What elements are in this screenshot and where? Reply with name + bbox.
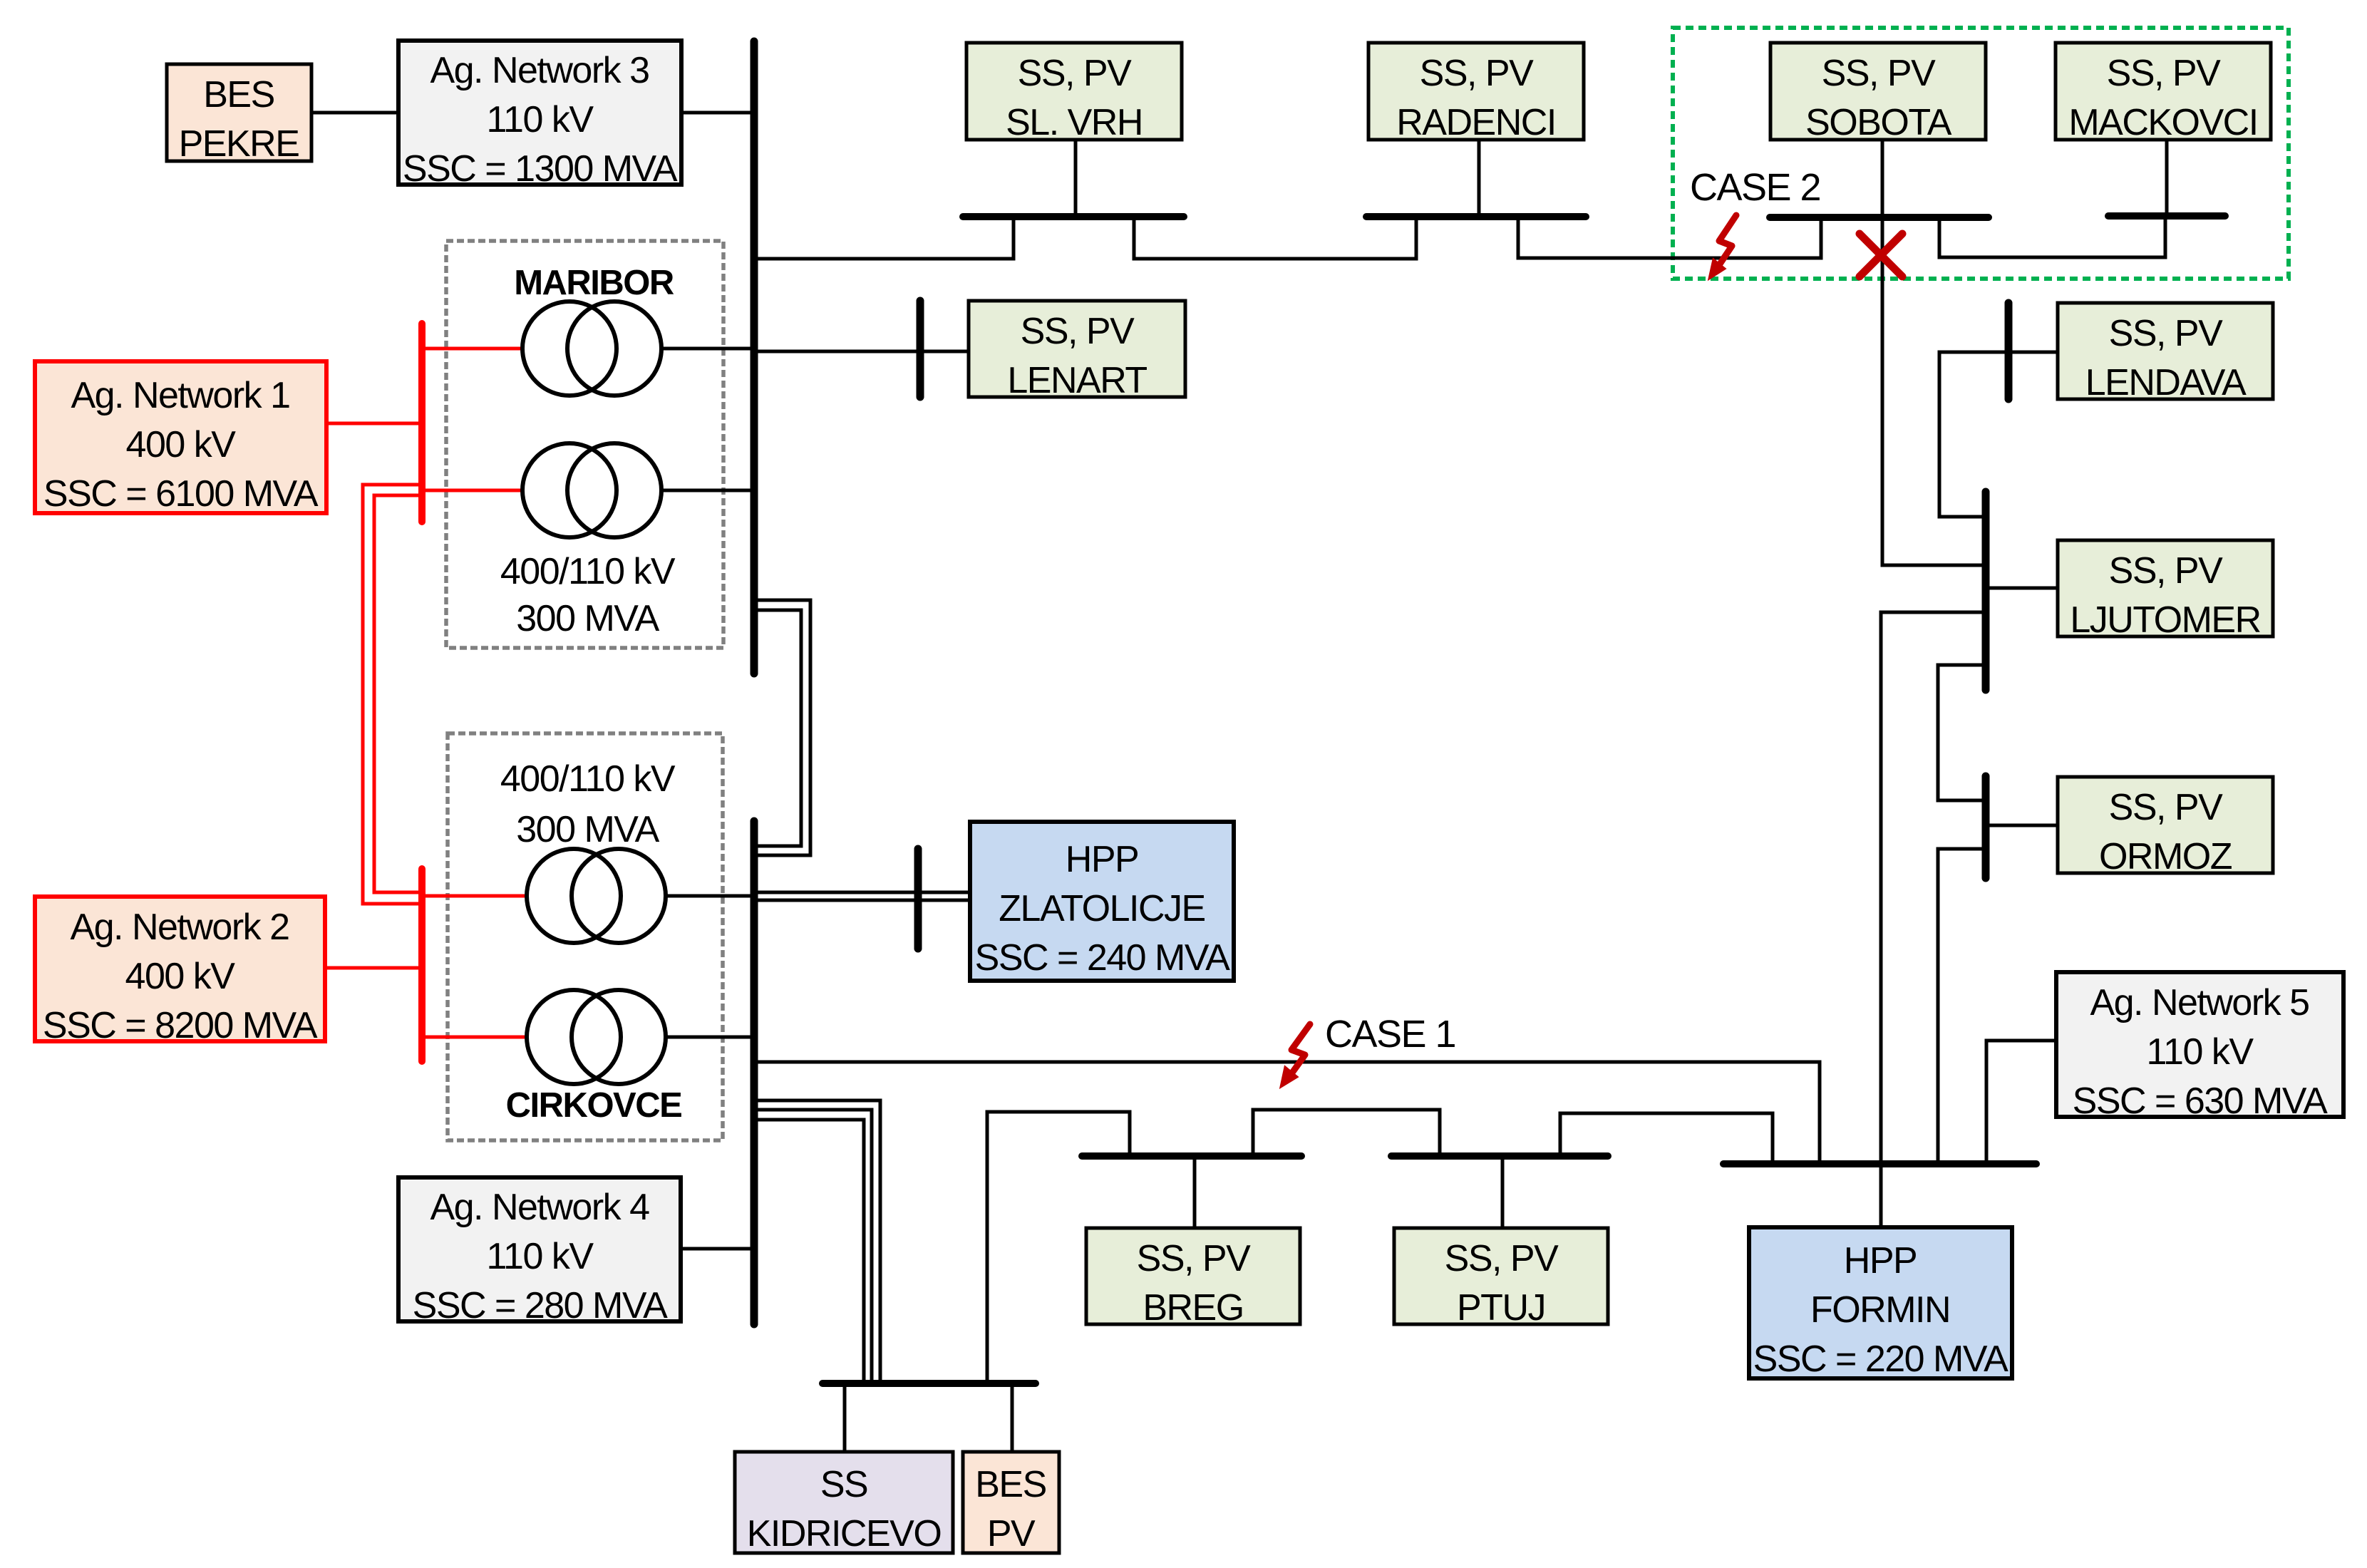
red wire to transformer T4 <box>422 1036 527 1039</box>
wire Ag. Network 5 to FORMIN busbar <box>1986 1041 2056 1164</box>
busbar LJUTOMER node <box>1982 492 1990 690</box>
stem SL. VRH box to busbar <box>1074 140 1078 217</box>
busbar tick LENDAVA <box>2005 303 2013 399</box>
box Ag. Network 3 <box>398 41 681 190</box>
box SS KIDRICEVO <box>735 1452 953 1554</box>
svg-text:SS: SS <box>820 1464 867 1505</box>
svg-text:400/110 kV: 400/110 kV <box>500 551 676 592</box>
svg-text:BES: BES <box>975 1464 1046 1505</box>
svg-text:PTUJ: PTUJ <box>1457 1287 1545 1329</box>
svg-text:Ag. Network 4: Ag. Network 4 <box>430 1187 649 1228</box>
red wire to transformer T2 <box>422 489 522 492</box>
wire main busbar to SL. VRH left drop <box>754 217 1014 259</box>
svg-text:SS, PV: SS, PV <box>2109 550 2223 592</box>
wire SOBOTA long vertical down to LJUTOMER node <box>1882 217 1986 565</box>
busbar tick ZLATOLICJE <box>914 849 922 949</box>
svg-text:CASE 2: CASE 2 <box>1690 166 1820 209</box>
svg-text:Ag. Network 3: Ag. Network 3 <box>430 50 649 91</box>
box SS, PV BREG <box>1086 1228 1300 1329</box>
box SS, PV MACKOVCI <box>2056 43 2271 143</box>
red wire Ag. Network 2 to red busbar <box>325 966 422 970</box>
svg-text:SOBOTA: SOBOTA <box>1805 102 1952 143</box>
box Ag. Network 1 <box>35 361 326 515</box>
red wire to transformer T1 <box>422 347 522 351</box>
red wire Ag. Network 1 to red busbar <box>326 422 422 425</box>
svg-text:HPP: HPP <box>1066 839 1138 880</box>
svg-text:SS, PV: SS, PV <box>2107 53 2221 94</box>
red staple inner linking 400kV busbars <box>374 495 422 892</box>
box SS, PV PTUJ <box>1394 1228 1608 1329</box>
svg-text:SSC = 220 MVA: SSC = 220 MVA <box>1753 1339 2009 1380</box>
wire ORMOZ node down to FORMIN busbar <box>1938 849 1986 1164</box>
svg-text:300 MVA: 300 MVA <box>516 598 659 639</box>
svg-text:PEKRE: PEKRE <box>179 123 299 165</box>
red wire to transformer T3 <box>422 894 527 898</box>
box SS, PV LJUTOMER <box>2058 540 2273 641</box>
svg-text:ZLATOLICJE: ZLATOLICJE <box>999 888 1205 929</box>
stem BREG busbar to BREG box <box>1193 1156 1197 1228</box>
svg-text:BES: BES <box>203 74 274 115</box>
box Ag. Network 4 <box>398 1177 681 1326</box>
svg-text:SS, PV: SS, PV <box>1420 53 1534 94</box>
svg-text:SS, PV: SS, PV <box>2109 313 2223 354</box>
svg-text:HPP: HPP <box>1844 1240 1917 1281</box>
transformer T2 MARIBOR <box>522 443 617 537</box>
wire ORMOZ node to ORMOZ box <box>1986 824 2058 827</box>
svg-text:SSC = 280 MVA: SSC = 280 MVA <box>413 1285 669 1326</box>
busbar ORMOZ node <box>1982 776 1990 878</box>
transformer T3 CIRKOVCE output wire <box>666 894 754 898</box>
svg-text:MARIBOR: MARIBOR <box>514 264 674 302</box>
dashed green box CASE 2 zone <box>1673 28 2289 279</box>
svg-text:SSC = 8200 MVA: SSC = 8200 MVA <box>43 1005 318 1046</box>
svg-text:Ag. Network 1: Ag. Network 1 <box>71 375 289 416</box>
wire main busbar to LENART <box>754 350 969 354</box>
stem PTUJ busbar to PTUJ box <box>1501 1156 1505 1228</box>
svg-text:RADENCI: RADENCI <box>1396 102 1556 143</box>
wire SL. VRH right drop to RADENCI left drop <box>1134 217 1416 259</box>
box BES PEKRE <box>167 64 311 165</box>
svg-text:ORMOZ: ORMOZ <box>2099 836 2232 877</box>
transformer T1 MARIBOR (two circles) <box>522 301 617 396</box>
box Ag. Network 2 <box>35 897 325 1046</box>
double circuit staple inner between main busbars <box>754 610 801 846</box>
svg-text:SS, PV: SS, PV <box>1137 1238 1251 1279</box>
busbar SOBOTA <box>1770 214 1989 221</box>
svg-text:KIDRICEVO: KIDRICEVO <box>747 1513 942 1554</box>
box SS, PV RADENCI <box>1368 43 1584 143</box>
svg-text:SL. VRH: SL. VRH <box>1006 102 1143 143</box>
svg-text:SS, PV: SS, PV <box>2109 787 2223 828</box>
box BES PV <box>963 1452 1059 1554</box>
box HPP ZLATOLICJE <box>970 822 1234 981</box>
svg-text:110 kV: 110 kV <box>2146 1031 2254 1073</box>
wire bundle line 1 Cirkovce busbar to KIDRICEVO busbar <box>754 1100 880 1383</box>
busbar SL. VRH <box>963 213 1184 220</box>
svg-text:SSC = 6100 MVA: SSC = 6100 MVA <box>43 473 319 515</box>
wire SOBOTA right drop to MACKOVCI drop <box>1939 216 2165 257</box>
wire LJUTOMER node to LJUTOMER box <box>1986 587 2058 590</box>
red busbar CIRKOVCE 400kV <box>418 869 426 1061</box>
svg-text:MACKOVCI: MACKOVCI <box>2068 102 2257 143</box>
wire KIDRICEVO busbar up to BREG busbar <box>987 1112 1130 1383</box>
wire bundle line 3 Cirkovce busbar to KIDRICEVO busbar <box>754 1120 864 1383</box>
stem MACKOVCI box to busbar <box>2165 140 2169 216</box>
transformer T4 CIRKOVCE <box>527 990 621 1084</box>
svg-text:BREG: BREG <box>1143 1287 1243 1329</box>
busbar MARIBOR 110kV main vertical <box>751 41 758 674</box>
wire BREG right drop to PTUJ busbar <box>1253 1110 1440 1156</box>
svg-text:Ag. Network 5: Ag. Network 5 <box>2090 982 2309 1023</box>
red X fault mark CASE 2 <box>1860 234 1902 277</box>
svg-text:110 kV: 110 kV <box>486 1236 594 1277</box>
box HPP FORMIN <box>1749 1227 2012 1380</box>
dashed group box MARIBOR transformers <box>446 241 723 648</box>
wire LJUTOMER node to ORMOZ node <box>1938 665 1986 800</box>
svg-text:LENART: LENART <box>1007 360 1147 401</box>
wire CASE 1 long line Cirkovce busbar to FORMIN busbar <box>754 1062 1820 1164</box>
svg-text:400/110 kV: 400/110 kV <box>500 758 676 800</box>
busbar CIRKOVCE 110kV main vertical <box>751 821 758 1324</box>
box Ag. Network 5 <box>2056 972 2343 1122</box>
wire PTUJ right drop to FORMIN busbar <box>1560 1113 1773 1164</box>
wire BES PEKRE to Ag. Network 3 <box>311 111 398 115</box>
svg-text:300 MVA: 300 MVA <box>516 809 659 850</box>
box SS, PV SOBOTA <box>1770 43 1986 143</box>
svg-text:CASE 1: CASE 1 <box>1325 1013 1455 1056</box>
svg-text:SS, PV: SS, PV <box>1021 311 1135 352</box>
busbar MACKOVCI <box>2108 212 2225 220</box>
svg-text:SSC = 630 MVA: SSC = 630 MVA <box>2073 1080 2329 1122</box>
double line Cirkovce busbar to HPP ZLATOLICJE upper <box>754 891 970 894</box>
svg-text:400 kV: 400 kV <box>125 956 236 997</box>
double line Cirkovce busbar to HPP ZLATOLICJE lower <box>754 899 970 902</box>
transformer T1 MARIBOR output wire <box>661 347 754 351</box>
box SS, PV SL. VRH <box>966 43 1182 143</box>
busbar RADENCI <box>1366 213 1586 220</box>
transformer T3 CIRKOVCE <box>527 849 621 943</box>
lightning bolt CASE 2 <box>1709 215 1736 279</box>
stem SOBOTA box to busbar <box>1881 140 1884 217</box>
busbar PTUJ <box>1391 1152 1608 1160</box>
svg-text:PV: PV <box>987 1513 1036 1554</box>
busbar tick LENART <box>917 301 924 397</box>
svg-text:110 kV: 110 kV <box>486 99 594 140</box>
busbar BREG <box>1082 1152 1301 1160</box>
svg-text:CIRKOVCE: CIRKOVCE <box>506 1086 682 1125</box>
busbar KIDRICEVO <box>822 1380 1036 1387</box>
svg-text:LJUTOMER: LJUTOMER <box>2070 599 2260 641</box>
svg-text:400 kV: 400 kV <box>126 424 237 465</box>
lightning bolt CASE 1 <box>1281 1024 1310 1087</box>
wire bundle line 2 Cirkovce busbar to KIDRICEVO busbar <box>754 1110 872 1383</box>
svg-text:Ag. Network 2: Ag. Network 2 <box>70 907 289 948</box>
red busbar MARIBOR 400kV <box>418 324 426 522</box>
svg-text:LENDAVA: LENDAVA <box>2085 362 2247 403</box>
busbar FORMIN <box>1723 1160 2036 1167</box>
double circuit staple outer between main busbars <box>754 600 810 855</box>
svg-text:SSC = 240 MVA: SSC = 240 MVA <box>975 937 1231 979</box>
box SS, PV ORMOZ <box>2058 777 2273 877</box>
wire LJUTOMER node south to FORMIN busbar and FORMIN box <box>1881 612 1986 1227</box>
wire Ag. Network 4 to Cirkovce busbar <box>681 1247 754 1251</box>
svg-text:FORMIN: FORMIN <box>1810 1289 1950 1331</box>
wire LENDAVA to LJUTOMER node <box>1939 352 2058 517</box>
svg-text:SS, PV: SS, PV <box>1018 53 1132 94</box>
stem KIDRICEVO busbar to SS KIDRICEVO box <box>843 1383 847 1452</box>
wire Ag. Network 3 to main 110kV busbar <box>681 111 754 115</box>
svg-text:SS, PV: SS, PV <box>1445 1238 1559 1279</box>
svg-text:SS, PV: SS, PV <box>1822 53 1936 94</box>
box SS, PV LENDAVA <box>2058 303 2273 403</box>
stem RADENCI box to busbar <box>1478 140 1481 217</box>
transformer T2 MARIBOR output wire <box>661 489 754 492</box>
dashed group box CIRKOVCE transformers <box>448 733 723 1140</box>
svg-text:SSC = 1300 MVA: SSC = 1300 MVA <box>403 148 678 190</box>
box SS, PV LENART <box>969 301 1185 401</box>
red staple outer linking 400kV busbars <box>363 485 422 904</box>
wire RADENCI right drop to SOBOTA left drop <box>1518 217 1821 258</box>
transformer T4 CIRKOVCE output wire <box>666 1036 754 1039</box>
stem KIDRICEVO busbar to BES PV box <box>1011 1383 1014 1452</box>
